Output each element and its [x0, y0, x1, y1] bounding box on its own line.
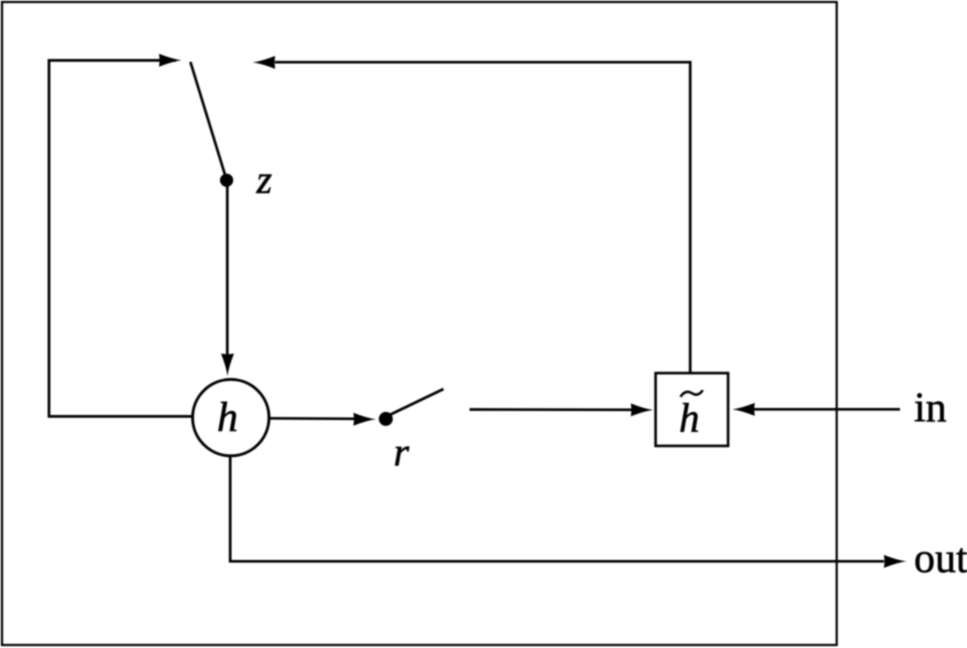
tilde over h — [681, 390, 703, 397]
candidate activation box h~ — [656, 373, 729, 446]
wire: from z node down to h — [226, 186, 229, 357]
switch z blade (slanted line) — [190, 62, 226, 178]
svg-text:in: in — [914, 386, 947, 432]
svg-text:z: z — [256, 157, 273, 202]
wire: h to r switch — [268, 417, 356, 420]
node z (switch pivot dot) — [220, 174, 233, 187]
svg-text:r: r — [394, 430, 410, 475]
wire: input "in" into candidate box (leftward) — [754, 408, 900, 411]
arrowhead into candidate box (right-pointing) — [631, 403, 654, 416]
state unit h (circle) — [193, 379, 269, 455]
arrowhead at out (right-pointing) — [884, 555, 907, 568]
arrowhead pointing left at z switch — [253, 56, 276, 69]
switch r blade (slanted line) — [391, 389, 444, 415]
svg-text:h: h — [217, 395, 238, 441]
arrowhead pointing left into candidate box — [732, 403, 755, 416]
wire: h down and right to out — [230, 455, 884, 561]
svg-text:h: h — [679, 395, 700, 441]
wire: left recurrent feedback (h left up to z switch input) — [49, 60, 192, 416]
node r (switch pivot dot) — [379, 412, 393, 426]
arrowhead into r node (right-pointing) — [353, 413, 376, 426]
svg-text:out: out — [914, 536, 967, 582]
wire: top feedback from candidate box to z switch (leftward) — [275, 62, 690, 373]
arrowhead into h (down-pointing) — [221, 354, 234, 377]
wire: r switch output to candidate box — [470, 408, 635, 411]
arrowhead into z switch (right-pointing) — [159, 54, 182, 67]
